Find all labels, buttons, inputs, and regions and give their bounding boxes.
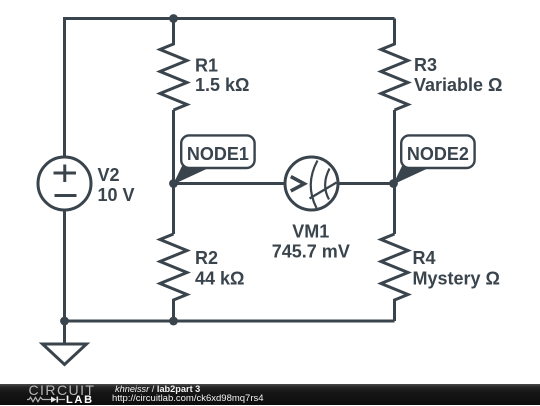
wire right (R3 bottom to NODE2 to R4 top) [393,110,396,234]
svg-text:R1: R1 [195,56,218,76]
wire middle (R1 bottom to NODE1 to R2 top) [172,110,175,234]
svg-text:Mystery Ω: Mystery Ω [413,269,500,289]
voltage source V2 [38,157,91,210]
node NODE2 callout tail [393,166,433,185]
wire bottom rail [65,320,395,323]
svg-text:R4: R4 [413,248,436,268]
node junction dot top [169,14,178,23]
node NODE2 junction dot [389,179,398,188]
svg-text:R2: R2 [195,248,218,268]
CircuitLab logo text [29,382,96,398]
footer url line [112,394,264,404]
node NODE1 junction dot [169,179,178,188]
svg-text:44 kΩ: 44 kΩ [195,269,244,289]
svg-text:745.7 mV: 745.7 mV [272,242,350,262]
wire NODE1 to voltmeter [174,182,286,185]
resistor R4 [381,234,408,321]
resistor R2 [160,234,187,321]
voltmeter VM1 [285,157,338,210]
node NODE2 callout box [401,135,474,168]
resistor R1 [160,19,187,111]
node NODE1 callout box [181,135,254,168]
node NODE1 callout tail [173,166,213,185]
svg-text:10 V: 10 V [98,185,135,205]
node bottom middle junction dot [169,317,178,326]
wire top rail [65,19,395,158]
svg-text:R3: R3 [414,55,437,75]
footer bar [0,384,540,405]
ground [43,321,87,365]
node ground junction dot [60,317,69,326]
resistor R3 [381,19,408,111]
footer title line [115,385,200,395]
svg-text:V2: V2 [98,165,120,185]
svg-text:Variable Ω: Variable Ω [414,75,502,95]
svg-text:NODE1: NODE1 [187,144,249,164]
wire left lower (V2 bottom to bottom rail) [63,210,66,321]
svg-text:NODE2: NODE2 [407,144,469,164]
CircuitLab logo squiggle [27,395,67,405]
svg-text:VM1: VM1 [292,222,329,242]
svg-text:1.5 kΩ: 1.5 kΩ [195,75,249,95]
wire voltmeter to NODE2 [338,182,395,185]
